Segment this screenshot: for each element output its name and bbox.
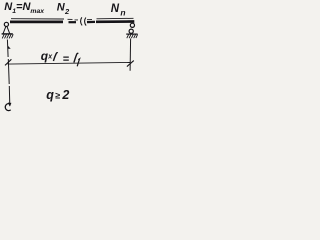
right support ground line (126, 33, 137, 35)
left axis arrow barb (8, 46, 11, 49)
svg-text:q: q (46, 88, 54, 102)
svg-text:≥: ≥ (55, 91, 60, 101)
left support hatching (2, 34, 13, 38)
left axis line lower (9, 64, 10, 106)
right dimension tick (127, 61, 134, 67)
left support ground line (2, 33, 13, 35)
right support upper circle (130, 23, 134, 27)
right extension line (129, 39, 132, 71)
right support lower circle (129, 29, 133, 33)
svg-text:2: 2 (61, 88, 69, 102)
wire beam thick line (10, 21, 63, 24)
right support hatching (127, 34, 138, 38)
break symbol arcs (81, 17, 83, 25)
left axis line upper (7, 40, 8, 65)
bottom arrowhead (8, 103, 11, 107)
left dimension tick (5, 59, 11, 65)
wire beam thin top line (11, 18, 134, 20)
point C symbol (5, 104, 10, 111)
left support triangle (3, 26, 10, 33)
left support pin circle (4, 22, 8, 26)
wire beam dash mid-right (87, 21, 95, 23)
wire beam dash mid-left (69, 21, 77, 23)
svg-text:=: = (63, 54, 70, 66)
wire beam right solid (96, 20, 134, 23)
dimension line (8, 62, 131, 64)
